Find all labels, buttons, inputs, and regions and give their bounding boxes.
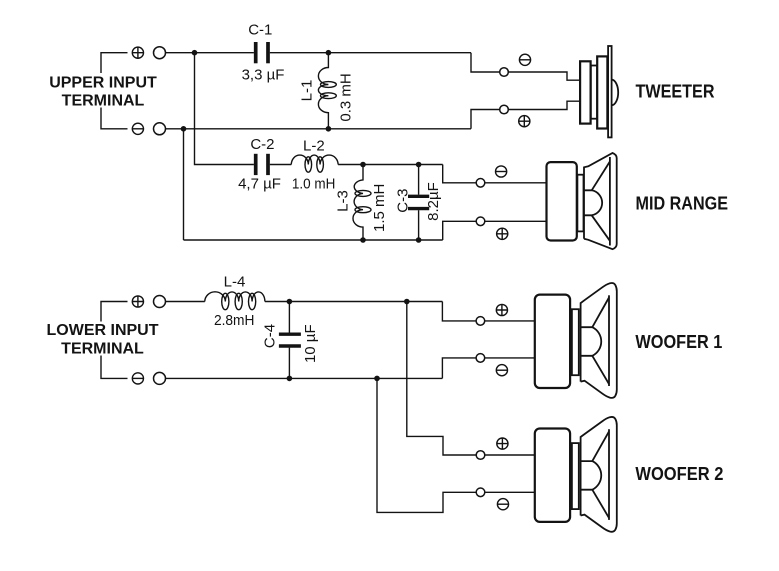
node: C3 bottom (416, 237, 422, 243)
capacitor C1 (256, 42, 268, 63)
svg-text:C-4: C-4 (262, 324, 279, 348)
node: C3 top (416, 162, 422, 168)
node: - rail / mid drop (181, 126, 187, 132)
svg-text:10 µF: 10 µF (302, 324, 319, 363)
symbol: woofer2 minus (497, 499, 508, 510)
terminal circle: mid top (476, 179, 485, 188)
wire: woofer1 - lead (442, 358, 535, 379)
terminal circle: woofer2 bottom (476, 488, 485, 497)
polarity symbols (132, 47, 530, 510)
wire: lower - rail (166, 377, 443, 379)
svg-text:L-4: L-4 (224, 273, 246, 290)
node: C4 bottom (287, 376, 293, 382)
svg-text:C-3: C-3 (395, 189, 412, 213)
label: LOWER INPUT TERMINAL (47, 322, 159, 358)
wire: L4 to woofer1 corner (265, 301, 443, 303)
terminal circle: lower + (154, 296, 166, 308)
wire: mid + lead (443, 165, 547, 183)
node: L1 bottom (326, 126, 332, 132)
component value labels (214, 22, 442, 363)
wire: lower + rail to L4 (166, 301, 205, 303)
upper input terminal bracket (101, 53, 128, 129)
junction dots (181, 50, 422, 381)
terminal circle: woofer1 bottom (476, 354, 485, 363)
svg-text:TWEETER: TWEETER (636, 82, 715, 102)
terminal circle: woofer1 top (476, 317, 485, 326)
symbol: lower input plus (132, 296, 143, 307)
speaker WOOFER 2 (535, 417, 617, 532)
node: L1 top (326, 50, 332, 56)
svg-text:UPPER INPUT: UPPER INPUT (49, 75, 157, 92)
symbol: tweeter plus (519, 116, 530, 127)
symbol: tweeter minus (519, 54, 530, 65)
labels: speakers (635, 82, 728, 485)
terminal circle: upper + (154, 47, 166, 59)
svg-text:C-1: C-1 (248, 22, 272, 39)
symbol: woofer1 minus (496, 365, 507, 376)
speaker MID RANGE (547, 153, 617, 249)
node: L3 top (360, 162, 366, 168)
speaker WOOFER 1 (535, 283, 617, 398)
capacitor C2 (256, 154, 268, 175)
speaker TWEETER (580, 46, 618, 137)
svg-text:WOOFER 2: WOOFER 2 (635, 464, 723, 484)
svg-text:L-3: L-3 (335, 190, 352, 212)
svg-text:MID RANGE: MID RANGE (636, 193, 729, 213)
node: C4 top (287, 299, 293, 305)
terminal circle: mid bottom (476, 217, 485, 226)
wire: drop from - rail to mid bottom rail (183, 129, 185, 240)
symbol: upper input plus (132, 47, 143, 58)
wire: drop to woofer2 - (377, 378, 535, 512)
label: UPPER INPUT TERMINAL (49, 75, 157, 110)
node: woofer2 + tap (404, 299, 410, 305)
terminal circle: woofer2 top (476, 451, 485, 460)
svg-text:LOWER INPUT: LOWER INPUT (47, 322, 159, 339)
svg-text:8.2µF: 8.2µF (425, 182, 442, 221)
capacitor C3 (vertical) (418, 165, 420, 195)
symbol: lower input minus (132, 373, 143, 384)
svg-text:0.3 mH: 0.3 mH (338, 73, 355, 121)
svg-text:4,7 µF: 4,7 µF (238, 175, 281, 192)
symbol: woofer2 plus (497, 438, 508, 449)
node: + rail / C2 drop (192, 50, 198, 56)
inductor L4 (horizontal) (205, 292, 265, 302)
wire: mid bottom rail (184, 239, 443, 241)
capacitor C4 (vertical) (288, 302, 290, 333)
wire: drop from + rail to C2 row (195, 53, 254, 165)
symbol: mid minus (496, 166, 507, 177)
terminal circle: tweeter - lead (500, 105, 509, 114)
terminal circle: upper - (154, 123, 166, 135)
wire: C2 to L2 (270, 164, 292, 166)
wire: tweeter - lead with jogs (471, 101, 581, 129)
svg-text:1.5 mH: 1.5 mH (371, 184, 388, 232)
svg-text:TERMINAL: TERMINAL (62, 93, 145, 110)
wire: upper + rail from input circle to tweeter corner (166, 52, 254, 54)
svg-text:L-1: L-1 (299, 80, 316, 102)
svg-text:1.0 mH: 1.0 mH (292, 175, 336, 192)
lower input terminal bracket (101, 302, 128, 379)
svg-text:TERMINAL: TERMINAL (61, 341, 144, 358)
input terminal circles (154, 47, 509, 497)
wire: woofer1 + lead (442, 302, 535, 321)
symbol: woofer1 plus (496, 304, 507, 315)
wire: L2 to mid right corner (338, 164, 443, 166)
wire: drop to woofer2 + (407, 302, 535, 456)
svg-text:L-2: L-2 (303, 138, 325, 155)
node: L3 bottom (360, 237, 366, 243)
svg-text:WOOFER 1: WOOFER 1 (635, 332, 722, 352)
node: woofer2 - tap (374, 376, 380, 382)
symbol: mid plus (497, 228, 508, 239)
inductor L3 (vertical) (353, 165, 363, 241)
inductor L2 (horizontal) (291, 155, 338, 164)
wire: tweeter + lead with jogs (471, 53, 581, 80)
svg-text:C-2: C-2 (250, 136, 274, 153)
symbol: upper input minus (132, 123, 143, 134)
terminal circle: lower - (154, 372, 166, 384)
mask rects behind input label text (47, 73, 161, 108)
inductor L1 (vertical) (318, 53, 328, 129)
wire: upper - rail (166, 128, 472, 130)
wire: mid - lead (443, 221, 547, 240)
svg-text:3,3 µF: 3,3 µF (242, 67, 285, 84)
terminal circle: tweeter + lead (500, 68, 509, 77)
svg-text:2.8mH: 2.8mH (214, 312, 255, 329)
